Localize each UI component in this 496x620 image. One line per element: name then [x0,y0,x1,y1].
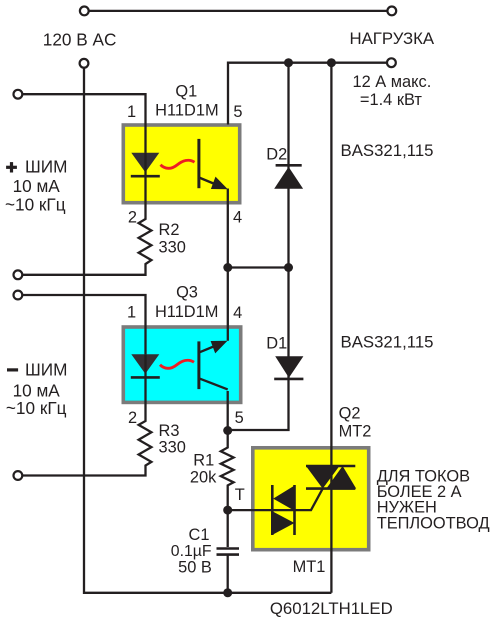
svg-text:20k: 20k [190,469,217,487]
svg-text:R1: R1 [193,452,214,470]
svg-text:ШИМ: ШИМ [25,360,67,380]
svg-text:330: 330 [159,238,186,256]
svg-text:Q1: Q1 [175,82,197,100]
svg-text:R3: R3 [159,422,180,440]
svg-text:ШИМ: ШИМ [25,156,67,176]
svg-text:1: 1 [127,304,136,322]
svg-text:Q3: Q3 [176,284,198,302]
svg-text:D1: D1 [266,334,287,352]
svg-text:MT1: MT1 [293,558,326,576]
svg-text:=1.4 кВт: =1.4 кВт [360,91,422,109]
svg-text:Q6012LTH1LED: Q6012LTH1LED [270,599,393,618]
svg-text:10 мА: 10 мА [13,176,61,196]
svg-text:T: T [235,486,245,504]
svg-text:MT2: MT2 [339,423,372,441]
svg-text:BAS321,115: BAS321,115 [341,332,434,351]
svg-text:C1: C1 [189,526,210,544]
svg-text:~10 кГц: ~10 кГц [5,195,66,215]
svg-text:НАГРУЗКА: НАГРУЗКА [349,29,434,48]
svg-text:50 В: 50 В [178,558,212,576]
svg-text:4: 4 [233,208,242,226]
svg-text:330: 330 [159,439,186,457]
svg-text:4: 4 [233,304,242,322]
svg-text:ТЕПЛООТВОД: ТЕПЛООТВОД [377,514,490,532]
svg-text:Q2: Q2 [339,404,361,422]
svg-text:120 В AC: 120 В AC [43,29,117,49]
svg-text:12 А макс.: 12 А макс. [353,73,432,91]
svg-text:H11D1M: H11D1M [155,101,218,119]
svg-text:2: 2 [128,409,137,427]
svg-text:D2: D2 [266,145,287,163]
svg-text:5: 5 [235,409,244,427]
svg-text:1: 1 [127,103,136,121]
svg-text:H11D1M: H11D1M [155,303,218,321]
svg-text:R2: R2 [159,221,180,239]
svg-text:~10 кГц: ~10 кГц [6,398,67,418]
svg-text:5: 5 [233,103,242,121]
svg-text:BAS321,115: BAS321,115 [341,141,434,160]
svg-text:2: 2 [128,208,137,226]
